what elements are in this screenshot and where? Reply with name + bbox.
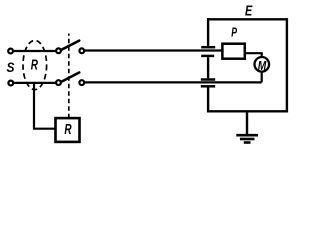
svg-text:M: M: [258, 59, 267, 73]
svg-text:P: P: [231, 26, 237, 40]
svg-text:S: S: [7, 59, 16, 75]
svg-text:E: E: [245, 4, 253, 20]
svg-text:R: R: [31, 58, 39, 74]
svg-text:R: R: [64, 122, 72, 138]
